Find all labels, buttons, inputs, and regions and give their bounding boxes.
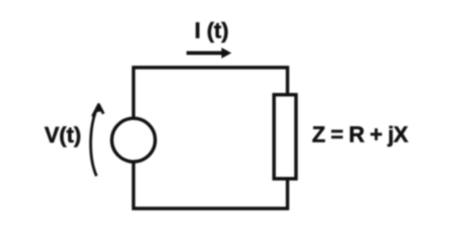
wire right upper [286, 66, 289, 96]
wire right lower [286, 178, 289, 210]
wire top [132, 66, 289, 69]
svg-text:V(t): V(t) [45, 123, 82, 148]
wire left lower [132, 161, 135, 210]
current direction arrow I(t) [187, 48, 232, 59]
impedance Z = R + jX [274, 95, 296, 179]
wire bottom [132, 207, 289, 210]
wire left upper [132, 66, 135, 119]
voltage source V(t) [112, 118, 155, 161]
voltage polarity arrow [91, 105, 104, 177]
svg-text:I (t): I (t) [195, 18, 229, 43]
svg-text:Z = R + jX: Z = R + jX [312, 122, 409, 147]
